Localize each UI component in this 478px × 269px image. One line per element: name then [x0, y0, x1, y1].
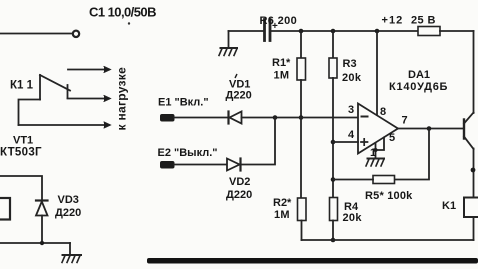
svg-text:7: 7: [402, 115, 408, 127]
output junction: [427, 126, 432, 131]
ground (bottom-left): [69, 243, 71, 255]
capacitor plates: [263, 20, 266, 41]
svg-text:1М: 1М: [274, 209, 290, 221]
op-amp minus sign: [362, 116, 368, 118]
svg-text:E1 "Вкл.": E1 "Вкл.": [158, 97, 209, 109]
feedback wire: [395, 129, 430, 180]
svg-text:R5* 100k: R5* 100k: [365, 190, 413, 202]
transistor emitter: [464, 137, 474, 150]
svg-text:VD2: VD2: [229, 176, 250, 188]
series resistor in rail: [418, 27, 440, 36]
svg-text:4: 4: [348, 129, 355, 141]
relay coil (left, cut off): [0, 198, 10, 220]
arrow to load (bottom): [19, 124, 110, 126]
transistor base bar: [463, 120, 465, 139]
svg-text:Д220: Д220: [226, 90, 252, 102]
wire E2 to VD2: [174, 164, 227, 166]
relay contact K1.1 step wire: [19, 100, 41, 126]
svg-text:5: 5: [389, 132, 395, 144]
bottom black bar: [147, 258, 478, 264]
svg-text:R3: R3: [343, 58, 357, 70]
svg-text:DA1: DA1: [408, 69, 430, 81]
svg-text:+: +: [272, 21, 278, 32]
svg-text:1: 1: [370, 147, 376, 159]
svg-text:КТ503Г: КТ503Г: [0, 147, 42, 159]
pin5 hook: [376, 138, 385, 151]
svg-text:к нагрузке: к нагрузке: [115, 67, 129, 131]
pin8 wire: [376, 31, 378, 115]
wire top-left to terminal: [0, 33, 72, 35]
resistor R4: [330, 198, 338, 221]
svg-text:C1 10,0/50В: C1 10,0/50В: [89, 5, 156, 20]
wire VD2 riser: [241, 118, 276, 165]
op-amp plus sign: [361, 139, 368, 145]
pin4 wire: [333, 141, 358, 143]
junction feedback: [331, 177, 336, 182]
pin1 wire: [375, 143, 377, 159]
terminal circle: [73, 31, 79, 37]
output wire pin7: [398, 128, 464, 130]
svg-text:Д220: Д220: [226, 189, 252, 201]
transistor collector: [464, 113, 474, 124]
svg-text:20k: 20k: [343, 212, 363, 224]
svg-text:VD3: VD3: [58, 194, 79, 206]
diode VD2 (cathode right): [227, 159, 240, 171]
node R1/R2/E1: [299, 115, 304, 120]
speck: [128, 22, 130, 24]
relay contact K1.1 blade: [40, 75, 70, 91]
arrow to load (middle): [68, 98, 110, 100]
svg-text:R1*: R1*: [272, 57, 291, 69]
junction dots on rail: [299, 29, 304, 34]
wire VD1 to op-amp pin3: [242, 117, 359, 119]
svg-text:К140УД6Б: К140УД6Б: [389, 81, 448, 93]
resistor R3: [332, 31, 334, 58]
power rail continues: [272, 30, 419, 32]
wire VT1 collector area left: [0, 176, 42, 200]
svg-text:R2*: R2*: [273, 197, 292, 209]
svg-text:VT1: VT1: [13, 135, 33, 147]
relay coil K1: [464, 198, 478, 218]
touch plate E1: [160, 114, 175, 122]
touch plate E2: [160, 161, 175, 169]
svg-text:25 В: 25 В: [411, 15, 436, 27]
bottom rail: [302, 239, 474, 241]
svg-text:К1 1: К1 1: [10, 80, 34, 92]
junction pin4: [331, 140, 336, 145]
+12V power rail: [229, 30, 264, 32]
ground (top-center): [228, 31, 230, 48]
bottom-left wire: [0, 242, 70, 244]
junction VD3-bottom: [40, 241, 44, 245]
relay contact K1.1 fixed contact bar: [67, 85, 69, 98]
arrow to load (top): [68, 69, 109, 71]
wire E1 to VD1: [174, 117, 228, 119]
svg-text:8: 8: [380, 106, 386, 118]
relay contact K1.1 blade pivot: [39, 75, 41, 100]
ground (op-amp): [368, 158, 385, 160]
svg-text:Д220: Д220: [55, 207, 81, 219]
emitter dot: [471, 168, 476, 173]
svg-text:1М: 1М: [274, 70, 290, 82]
node VD2 riser: [273, 115, 278, 120]
op-amp DA1 triangle: [358, 104, 398, 154]
resistor R5: [373, 176, 395, 184]
resistor R2: [298, 198, 307, 221]
svg-text:+12: +12: [382, 15, 404, 27]
diode VD3: [36, 199, 48, 201]
svg-text:K1: K1: [442, 200, 456, 212]
junction bottom rail: [331, 238, 336, 243]
svg-text:R6 200: R6 200: [260, 15, 298, 27]
diode VD1 (cathode left): [227, 112, 229, 124]
svg-text:E2 "Выкл.": E2 "Выкл.": [158, 147, 218, 159]
resistor R1: [300, 31, 302, 58]
svg-text:3: 3: [348, 104, 354, 116]
svg-text:20k: 20k: [342, 72, 362, 84]
